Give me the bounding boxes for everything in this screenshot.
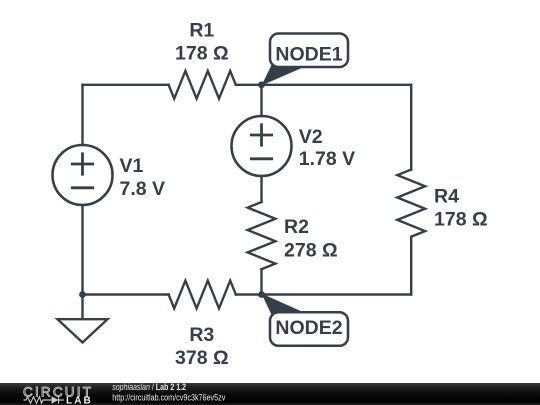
svg-text:7.8 V: 7.8 V — [120, 178, 166, 200]
footer bar — [0, 383, 540, 405]
ground stub wire — [81, 295, 83, 319]
svg-text:R4: R4 — [434, 185, 459, 207]
svg-text:sophiaaslan / Lab 2 1.2: sophiaaslan / Lab 2 1.2 — [112, 382, 186, 392]
node junction dot NODE1 — [258, 81, 265, 88]
svg-text:178 Ω: 178 Ω — [434, 208, 488, 230]
label V1 — [120, 155, 166, 200]
wire R2 to node2 — [260, 269, 262, 294]
wire left vertical bottom — [81, 205, 83, 295]
resistor R4 — [397, 170, 425, 237]
wire top horizontal right — [236, 84, 411, 86]
svg-text:NODE1: NODE1 — [275, 43, 342, 65]
svg-text:R1: R1 — [189, 20, 214, 42]
node junction dot NODE2 — [258, 291, 265, 298]
label R3 — [175, 324, 229, 369]
svg-text:V1: V1 — [120, 155, 144, 177]
wire bottom horizontal right — [236, 293, 411, 295]
wire top-left vertical — [81, 85, 83, 145]
wire top horizontal left — [83, 84, 169, 86]
wire V2 to R2 — [260, 176, 262, 202]
svg-text:LAB: LAB — [66, 395, 93, 405]
svg-text:R2: R2 — [284, 216, 309, 238]
wire bottom horizontal left — [83, 293, 169, 295]
resistor R3 — [169, 281, 236, 309]
voltage source V1 — [53, 145, 113, 205]
svg-text:R3: R3 — [189, 324, 214, 346]
svg-text:NODE2: NODE2 — [275, 317, 342, 339]
resistor R1 — [169, 71, 236, 99]
svg-text:V2: V2 — [299, 126, 323, 148]
wire right vertical bottom — [410, 237, 412, 295]
label R1 — [175, 20, 229, 65]
svg-text:378 Ω: 378 Ω — [175, 347, 229, 369]
svg-text:278 Ω: 278 Ω — [284, 240, 338, 262]
wire node1 to V2 — [260, 85, 262, 116]
svg-text:http://circuitlab.com/cv9c3k76: http://circuitlab.com/cv9c3k76ev5zv — [112, 393, 226, 403]
ground — [58, 319, 108, 342]
node flag NODE1 — [262, 34, 349, 86]
footer logo resistor-diode glyph — [24, 396, 65, 403]
label V2 — [299, 126, 355, 170]
node junction dot ground — [79, 291, 86, 298]
label R4 — [434, 185, 488, 230]
svg-text:1.78 V: 1.78 V — [299, 148, 355, 170]
resistor R2 — [248, 202, 276, 269]
node flag NODE2 — [262, 294, 349, 346]
wire right vertical top — [410, 85, 412, 170]
label R2 — [284, 216, 338, 262]
svg-text:178 Ω: 178 Ω — [175, 43, 229, 65]
voltage source V2 — [232, 116, 292, 176]
